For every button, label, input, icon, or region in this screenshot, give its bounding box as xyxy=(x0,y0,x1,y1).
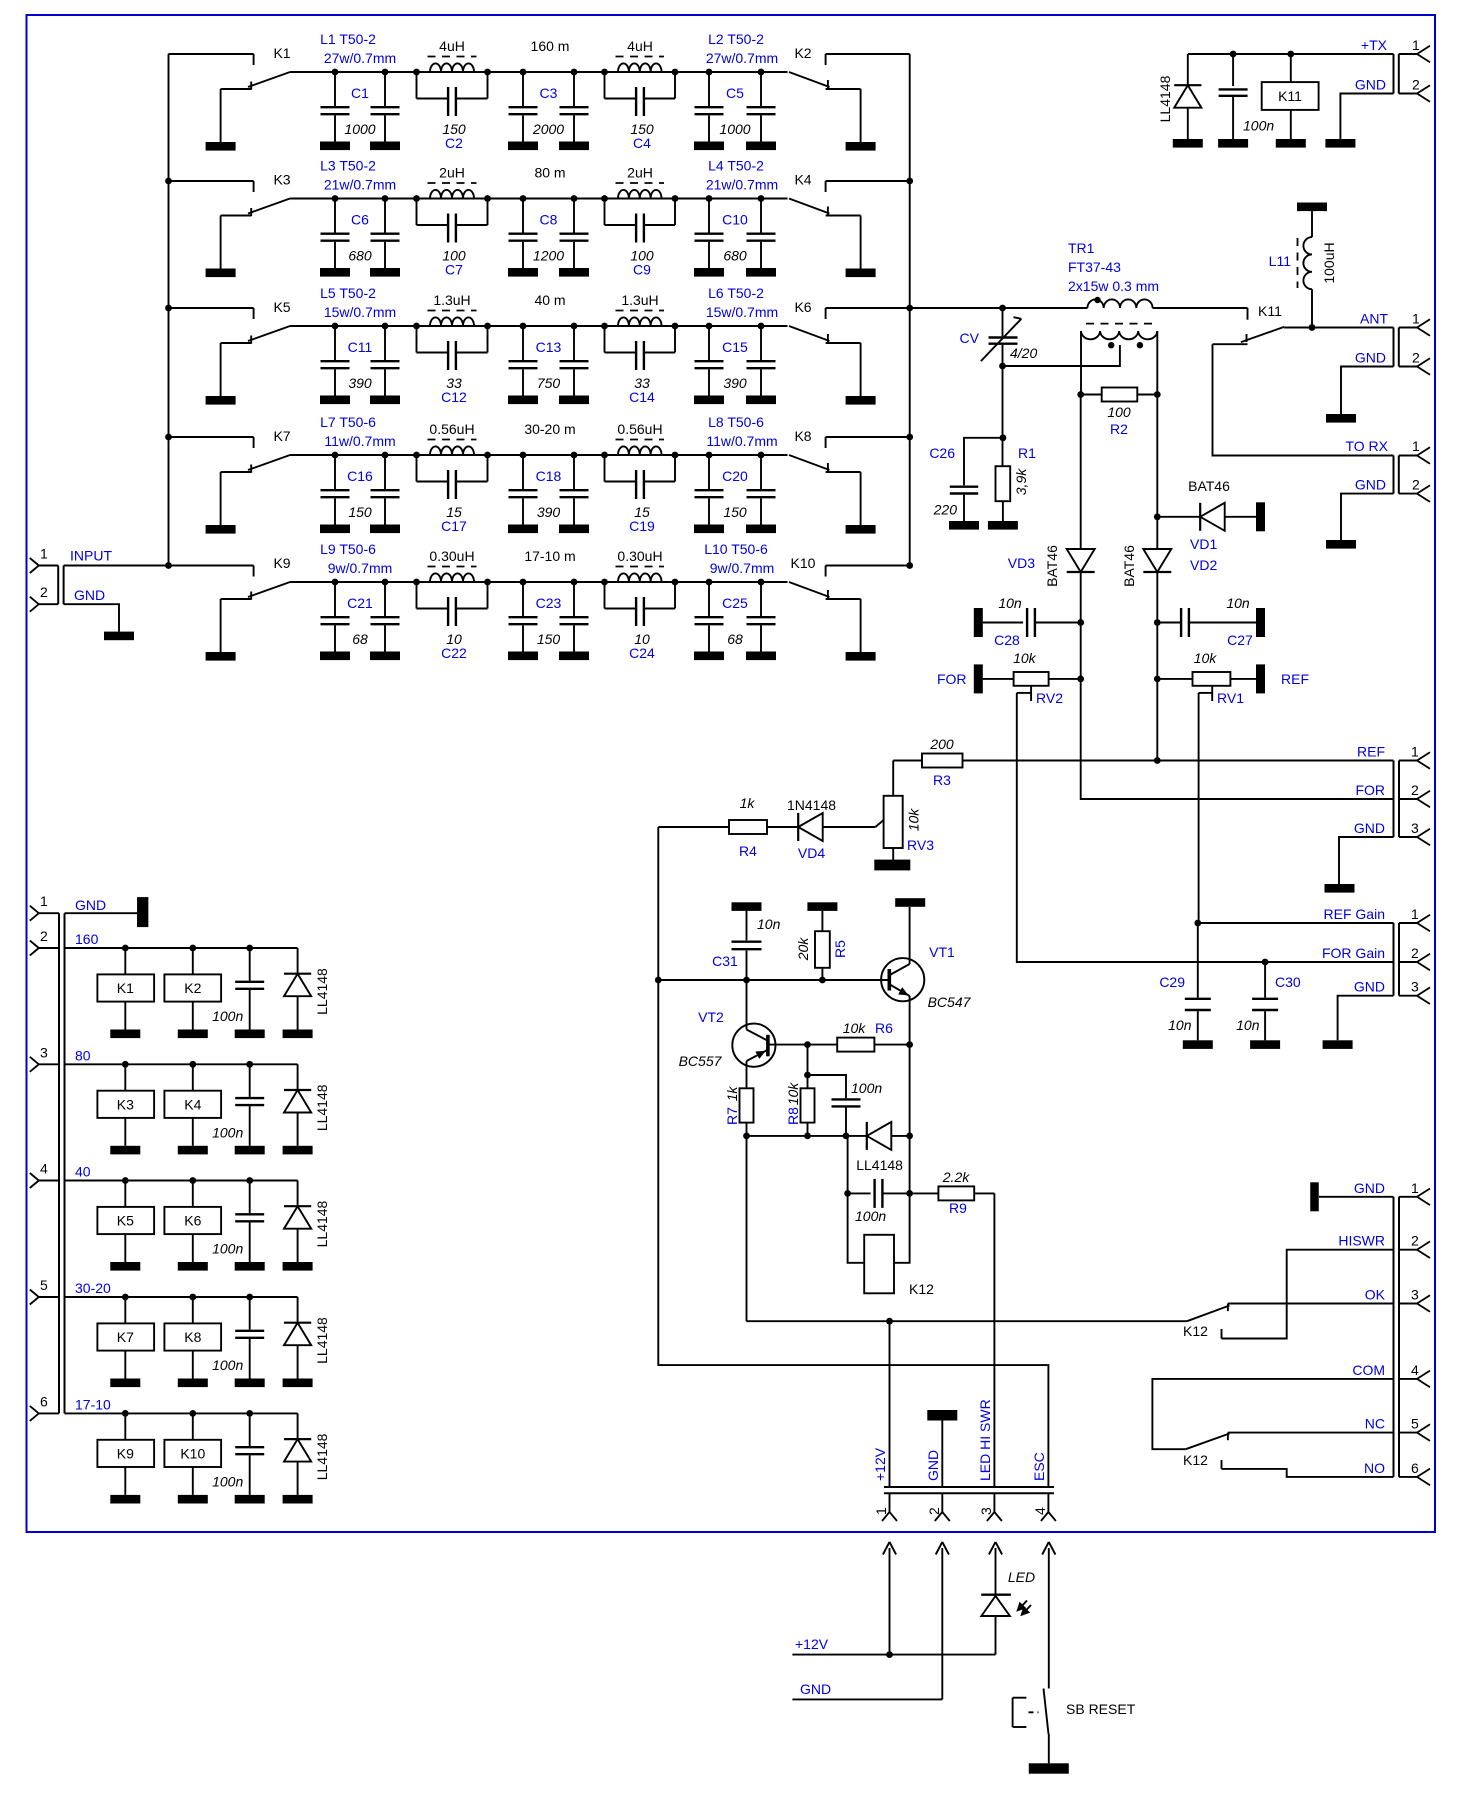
svg-text:100n: 100n xyxy=(212,1008,243,1024)
svg-text:1k: 1k xyxy=(724,1086,740,1102)
svg-text:1k: 1k xyxy=(740,795,756,811)
svg-text:1: 1 xyxy=(40,546,48,562)
svg-text:LED: LED xyxy=(1008,1569,1035,1585)
capacitor C13 pair xyxy=(508,323,589,405)
svg-text:K9: K9 xyxy=(117,1445,134,1461)
svg-text:R8: R8 xyxy=(785,1107,801,1125)
connector X9 REF Gain/FOR Gain/GND xyxy=(1322,906,1430,1004)
svg-text:68: 68 xyxy=(727,631,743,647)
capacitor C29 10n xyxy=(1159,923,1212,1049)
svg-text:2: 2 xyxy=(1411,1233,1419,1249)
connector X5 power xyxy=(872,1399,1056,1521)
svg-text:L1 T50-2: L1 T50-2 xyxy=(320,31,376,47)
svg-text:27w/0.7mm: 27w/0.7mm xyxy=(706,50,778,66)
svg-text:VD1: VD1 xyxy=(1190,536,1217,552)
capacitor C10 pair xyxy=(694,195,776,277)
svg-text:5: 5 xyxy=(40,1277,48,1293)
connector pin 4 (40) xyxy=(30,1161,91,1189)
svg-text:VT1: VT1 xyxy=(929,944,955,960)
svg-text:27w/0.7mm: 27w/0.7mm xyxy=(324,50,396,66)
capacitor C16 pair xyxy=(320,452,400,533)
svg-text:4: 4 xyxy=(1032,1507,1048,1515)
svg-text:0.56uH: 0.56uH xyxy=(617,421,662,437)
svg-text:100n: 100n xyxy=(212,1124,243,1140)
wire row 80 m main line xyxy=(290,198,788,200)
svg-text:C4: C4 xyxy=(633,135,651,151)
svg-text:K7: K7 xyxy=(273,428,290,444)
svg-text:L6 T50-2: L6 T50-2 xyxy=(708,285,764,301)
svg-text:160: 160 xyxy=(75,931,99,947)
svg-text:100uH: 100uH xyxy=(1321,242,1337,283)
svg-text:LL4148: LL4148 xyxy=(1157,75,1173,122)
diode LL4148 (17-10) xyxy=(283,1413,331,1503)
capacitor 100n (80) xyxy=(212,1064,265,1154)
svg-text:R4: R4 xyxy=(739,843,757,859)
svg-text:2: 2 xyxy=(926,1507,942,1515)
svg-text:100n: 100n xyxy=(851,1080,882,1096)
svg-text:CV: CV xyxy=(960,330,980,346)
svg-text:40 m: 40 m xyxy=(534,292,565,308)
svg-text:2: 2 xyxy=(1412,477,1420,493)
svg-text:C6: C6 xyxy=(351,212,369,228)
svg-text:2: 2 xyxy=(1412,77,1420,93)
relay K2 (right) xyxy=(789,45,910,151)
svg-text:80 m: 80 m xyxy=(534,165,565,181)
svg-text:LL4148: LL4148 xyxy=(314,1200,330,1247)
svg-text:BC557: BC557 xyxy=(679,1053,723,1069)
transistor VT1 BC547 xyxy=(881,898,972,1044)
svg-text:17-10: 17-10 xyxy=(75,1396,111,1412)
svg-text:ESC: ESC xyxy=(1031,1452,1047,1481)
relay coil K12 xyxy=(848,1136,935,1297)
wire NC net xyxy=(1228,1433,1394,1441)
svg-text:C16: C16 xyxy=(347,468,373,484)
svg-text:2000: 2000 xyxy=(532,121,564,137)
wire row 30-20 m main line xyxy=(290,454,788,456)
svg-text:2: 2 xyxy=(40,928,48,944)
svg-text:1: 1 xyxy=(1411,1180,1419,1196)
svg-text:10n: 10n xyxy=(1168,1017,1192,1033)
svg-text:21w/0.7mm: 21w/0.7mm xyxy=(706,177,778,193)
relay contact K12 (upper) xyxy=(1183,1306,1230,1340)
inductor L6 1.3uH xyxy=(601,285,778,329)
relay K3 (left) xyxy=(169,172,291,278)
svg-text:9w/0.7mm: 9w/0.7mm xyxy=(710,560,775,576)
svg-text:C18: C18 xyxy=(536,468,562,484)
wire VT1 base line xyxy=(655,977,888,984)
wire band 40 rail xyxy=(65,1177,298,1184)
svg-text:100n: 100n xyxy=(212,1357,243,1373)
relay contact K11 xyxy=(1153,303,1285,344)
connector pin 3 (80) xyxy=(30,1044,91,1072)
inductor L5 1.3uH xyxy=(320,285,491,329)
capacitor C14 (parallel with L6) xyxy=(605,326,676,405)
diode VD6 LL4148 xyxy=(856,1122,913,1173)
svg-text:R1: R1 xyxy=(1018,445,1036,461)
svg-text:L5 T50-2: L5 T50-2 xyxy=(320,285,376,301)
resistor R8 10k xyxy=(785,1045,815,1136)
svg-text:REF: REF xyxy=(1281,671,1309,687)
svg-text:680: 680 xyxy=(723,248,747,264)
svg-text:FOR Gain: FOR Gain xyxy=(1322,945,1385,961)
left bus wire xyxy=(165,54,172,569)
connector X6 band select xyxy=(30,893,106,1413)
svg-text:C27: C27 xyxy=(1227,632,1253,648)
connector X2 +TX xyxy=(1355,37,1430,102)
capacitor C33 100n (R8) xyxy=(808,1075,883,1136)
wire R9 to LED pin xyxy=(993,1193,995,1487)
svg-text:TO RX: TO RX xyxy=(1345,438,1388,454)
svg-text:10n: 10n xyxy=(998,595,1022,611)
diode VD5 LL4148 (+TX) xyxy=(1157,54,1203,148)
relay coil K7 xyxy=(97,1297,154,1387)
resistor R7 1k xyxy=(724,1086,754,1136)
capacitor C9 (parallel with L4) xyxy=(605,199,676,278)
wire VD3 branch xyxy=(1080,395,1082,550)
svg-text:K12: K12 xyxy=(1183,1452,1208,1468)
svg-text:RV2: RV2 xyxy=(1036,690,1063,706)
svg-text:C23: C23 xyxy=(536,595,562,611)
svg-text:10k: 10k xyxy=(1194,650,1218,666)
capacitor C23 pair xyxy=(508,579,589,661)
capacitor 100n (160) xyxy=(212,948,265,1038)
svg-text:1: 1 xyxy=(40,893,48,909)
svg-text:K11: K11 xyxy=(1278,88,1302,104)
wire CV node down xyxy=(1000,366,1007,466)
relay coil K1 xyxy=(97,948,154,1038)
svg-text:100n: 100n xyxy=(855,1208,886,1224)
svg-text:INPUT: INPUT xyxy=(70,548,112,564)
wire OK net xyxy=(1228,1304,1394,1312)
arrow +12V pin xyxy=(883,1542,896,1655)
svg-text:C29: C29 xyxy=(1159,974,1185,990)
wire +TX rail xyxy=(1188,51,1394,58)
svg-text:3: 3 xyxy=(40,1044,48,1060)
svg-text:17-10 m: 17-10 m xyxy=(524,548,575,564)
svg-text:15w/0.7mm: 15w/0.7mm xyxy=(706,304,778,320)
svg-text:10n: 10n xyxy=(1236,1017,1260,1033)
connector X8 REF/FOR/GND xyxy=(1354,744,1430,846)
svg-text:1: 1 xyxy=(1412,438,1420,454)
svg-text:100n: 100n xyxy=(1243,118,1274,134)
LED indicator xyxy=(981,1569,1035,1655)
svg-text:K10: K10 xyxy=(180,1445,205,1461)
arrow GND pin xyxy=(936,1542,949,1699)
svg-text:K11: K11 xyxy=(1258,303,1282,319)
svg-text:BAT46: BAT46 xyxy=(1044,545,1060,587)
arrow ESC pin xyxy=(1042,1542,1055,1689)
svg-text:4: 4 xyxy=(1411,1362,1419,1378)
svg-text:VT2: VT2 xyxy=(698,1009,724,1025)
svg-text:FOR: FOR xyxy=(1355,782,1385,798)
capacitor C11 pair xyxy=(320,323,400,405)
arrow LED pin xyxy=(989,1542,1002,1595)
capacitor C2 (parallel with L1) xyxy=(417,72,488,151)
capacitor 100n (17-10) xyxy=(212,1413,265,1503)
svg-text:L2 T50-2: L2 T50-2 xyxy=(708,31,764,47)
svg-text:150: 150 xyxy=(723,504,747,520)
capacitor C25 pair xyxy=(694,579,776,661)
svg-text:20k: 20k xyxy=(795,937,811,962)
diode LL4148 (80) xyxy=(283,1064,331,1154)
svg-text:10k: 10k xyxy=(906,808,922,832)
svg-text:R5: R5 xyxy=(832,940,848,958)
svg-text:HISWR: HISWR xyxy=(1338,1233,1385,1249)
svg-text:9w/0.7mm: 9w/0.7mm xyxy=(328,560,393,576)
svg-text:C25: C25 xyxy=(722,595,748,611)
svg-text:10n: 10n xyxy=(1226,595,1250,611)
svg-text:3: 3 xyxy=(1411,1287,1419,1303)
svg-text:LL4148: LL4148 xyxy=(856,1157,903,1173)
svg-text:68: 68 xyxy=(352,631,368,647)
resistor R1 3.9k xyxy=(988,445,1036,530)
diode VD1 BAT46 xyxy=(1157,478,1265,573)
capacitor C26 220 xyxy=(929,438,1003,530)
svg-text:10k: 10k xyxy=(843,1020,867,1036)
svg-text:3: 3 xyxy=(1411,979,1419,995)
svg-text:C24: C24 xyxy=(629,645,655,661)
svg-text:3,9k: 3,9k xyxy=(1013,468,1029,495)
connector X4 TO RX xyxy=(1345,438,1430,502)
svg-text:C11: C11 xyxy=(348,339,373,355)
svg-text:2: 2 xyxy=(1411,945,1419,961)
svg-text:NO: NO xyxy=(1364,1460,1385,1476)
wire K11 to ANT xyxy=(1284,324,1393,331)
svg-text:R9: R9 xyxy=(949,1200,967,1216)
svg-text:390: 390 xyxy=(348,375,372,391)
svg-text:2uH: 2uH xyxy=(627,165,653,181)
svg-text:K6: K6 xyxy=(184,1213,201,1229)
relay K7 (left) xyxy=(169,428,291,534)
svg-text:1: 1 xyxy=(1412,311,1420,327)
svg-text:RV1: RV1 xyxy=(1217,690,1244,706)
svg-text:LL4148: LL4148 xyxy=(314,968,330,1015)
svg-text:2uH: 2uH xyxy=(439,165,465,181)
svg-text:COM: COM xyxy=(1352,1362,1385,1378)
svg-text:SB RESET: SB RESET xyxy=(1066,1701,1136,1717)
resistor R9 2.2k xyxy=(910,1169,995,1216)
svg-text:0.56uH: 0.56uH xyxy=(429,421,474,437)
diode VD3 BAT46 xyxy=(1008,545,1095,623)
svg-text:100: 100 xyxy=(1107,404,1131,420)
capacitor C5 pair xyxy=(694,69,776,151)
capacitor C4 (parallel with L2) xyxy=(605,72,676,151)
svg-text:C10: C10 xyxy=(722,212,748,228)
capacitor C30 10n xyxy=(1236,962,1301,1049)
wire GND external xyxy=(792,1681,942,1699)
svg-text:1: 1 xyxy=(1411,744,1419,760)
wire band 30-20 rail xyxy=(65,1294,298,1301)
svg-text:1000: 1000 xyxy=(719,121,750,137)
svg-text:K3: K3 xyxy=(117,1096,134,1112)
ground (X8 GND pin) xyxy=(1325,837,1394,893)
wire K11 to TO RX xyxy=(1213,344,1394,455)
diode VD2 BAT46 xyxy=(1121,545,1172,623)
svg-text:REF Gain: REF Gain xyxy=(1324,906,1385,922)
svg-text:GND: GND xyxy=(74,587,105,603)
svg-text:C17: C17 xyxy=(441,518,467,534)
svg-text:K1: K1 xyxy=(273,45,290,61)
svg-text:10n: 10n xyxy=(757,916,781,932)
relay coil K5 xyxy=(97,1181,154,1271)
capacitor 100n (40) xyxy=(212,1181,265,1271)
capacitor C15 pair xyxy=(694,323,776,405)
wire RV1 wiper to REF Gain xyxy=(1194,693,1393,926)
svg-text:C12: C12 xyxy=(441,389,467,405)
connector pin 2 (160) xyxy=(30,928,99,956)
resistor R2 100 xyxy=(1077,388,1160,438)
svg-text:FOR: FOR xyxy=(937,671,967,687)
svg-text:C21: C21 xyxy=(347,595,373,611)
capacitor C12 (parallel with L5) xyxy=(417,326,488,405)
capacitor C18 pair xyxy=(508,452,589,533)
resistor R3 200 xyxy=(893,736,962,788)
inductor L3 2uH xyxy=(320,158,491,202)
svg-text:2: 2 xyxy=(1412,350,1420,366)
capacitor C32 100n (+TX) xyxy=(1218,54,1274,148)
capacitor C28 10n xyxy=(974,595,1084,648)
inductor L9 0.30uH xyxy=(320,541,491,585)
ground (ANT GND pin) xyxy=(1326,367,1394,423)
diode LL4148 (30-20) xyxy=(283,1297,331,1387)
svg-text:L10 T50-6: L10 T50-6 xyxy=(704,541,768,557)
relay coil K11 xyxy=(1262,54,1319,148)
relay contact K12 (lower) xyxy=(1183,1434,1230,1469)
svg-text:4: 4 xyxy=(40,1161,48,1177)
svg-text:390: 390 xyxy=(537,504,561,520)
svg-text:C31: C31 xyxy=(712,953,738,969)
svg-text:K3: K3 xyxy=(273,172,290,188)
potentiometer RV3 10k xyxy=(874,761,934,871)
svg-text:L8 T50-6: L8 T50-6 xyxy=(708,414,764,430)
svg-text:FT37-43: FT37-43 xyxy=(1068,259,1121,275)
ground (+TX GND pin) xyxy=(1325,94,1393,148)
svg-text:C13: C13 xyxy=(536,339,562,355)
svg-text:750: 750 xyxy=(537,375,561,391)
LED arrows xyxy=(1016,1601,1031,1617)
svg-text:L11: L11 xyxy=(1269,253,1292,269)
svg-text:C5: C5 xyxy=(726,85,744,101)
wire TX line to TR1 xyxy=(910,305,1088,312)
wire RV2 wiper to FOR Gain xyxy=(1017,693,1394,965)
wire CV to TR1 center tap xyxy=(999,345,1120,369)
svg-text:6: 6 xyxy=(40,1393,48,1409)
svg-text:REF: REF xyxy=(1357,744,1385,760)
svg-text:BC547: BC547 xyxy=(928,994,972,1010)
svg-text:+TX: +TX xyxy=(1361,37,1388,53)
capacitor C19 (parallel with L8) xyxy=(605,455,676,534)
relay K4 (right) xyxy=(789,172,910,278)
svg-text:2: 2 xyxy=(40,584,48,600)
svg-text:LED HI SWR: LED HI SWR xyxy=(977,1399,993,1481)
svg-text:40: 40 xyxy=(75,1164,91,1180)
svg-text:LL4148: LL4148 xyxy=(314,1433,330,1480)
capacitor C8 pair xyxy=(508,195,589,277)
wire VD2 branch xyxy=(1154,395,1161,550)
resistor R6 10k xyxy=(804,1020,913,1052)
diode LL4148 (40) xyxy=(283,1181,331,1271)
terminal bar (status GND) xyxy=(1310,1182,1393,1211)
inductor L2 4uH xyxy=(601,31,778,75)
wire COM net xyxy=(1152,1379,1393,1449)
svg-text:K8: K8 xyxy=(794,428,811,444)
svg-text:+12V: +12V xyxy=(795,1636,829,1652)
relay K1 (left) xyxy=(169,45,291,151)
svg-text:L3 T50-2: L3 T50-2 xyxy=(320,158,376,174)
capacitor C6 pair xyxy=(320,195,400,277)
right bus wire xyxy=(906,54,913,569)
svg-text:VD2: VD2 xyxy=(1190,557,1217,573)
svg-text:LL4148: LL4148 xyxy=(314,1317,330,1364)
capacitor C1 pair xyxy=(320,69,400,151)
svg-text:10k: 10k xyxy=(785,1082,801,1106)
relay K8 (right) xyxy=(789,428,910,534)
svg-text:L4 T50-2: L4 T50-2 xyxy=(708,158,764,174)
connector X7 status xyxy=(1338,1180,1430,1485)
capacitor C3 pair xyxy=(508,69,589,151)
svg-text:GND: GND xyxy=(75,897,106,913)
capacitor C7 (parallel with L3) xyxy=(417,199,488,278)
svg-text:K2: K2 xyxy=(184,980,201,996)
svg-text:K4: K4 xyxy=(794,172,811,188)
connector X1 INPUT xyxy=(30,546,113,612)
relay coil K4 xyxy=(164,1064,221,1154)
svg-text:390: 390 xyxy=(723,375,747,391)
svg-text:GND: GND xyxy=(1355,77,1386,93)
relay coil K6 xyxy=(164,1181,221,1271)
diode LL4148 (160) xyxy=(283,948,331,1038)
svg-text:160 m: 160 m xyxy=(531,38,570,54)
wire R4 to C31 node xyxy=(657,827,659,980)
svg-text:100n: 100n xyxy=(212,1241,243,1257)
resistor R4 1k xyxy=(658,795,798,859)
potentiometer RV1 10k xyxy=(1154,650,1309,706)
svg-text:1: 1 xyxy=(1412,37,1420,53)
inductor L4 2uH xyxy=(601,158,778,202)
resistor R5 20k xyxy=(795,902,848,980)
svg-text:200: 200 xyxy=(929,736,954,752)
svg-text:1: 1 xyxy=(873,1507,889,1515)
wire row 40 m main line xyxy=(290,325,788,327)
svg-text:0.30uH: 0.30uH xyxy=(429,548,474,564)
wire emitter net xyxy=(743,1133,867,1140)
svg-text:TR1: TR1 xyxy=(1068,240,1095,256)
svg-text:4/20: 4/20 xyxy=(1010,345,1037,361)
svg-text:GND: GND xyxy=(800,1681,831,1697)
svg-text:RV3: RV3 xyxy=(907,837,934,853)
svg-text:K7: K7 xyxy=(117,1329,134,1345)
svg-text:K12: K12 xyxy=(909,1281,934,1297)
wire FOR net (VD3 to connector) xyxy=(1081,623,1394,800)
wire NO net xyxy=(1222,1460,1394,1477)
svg-text:BAT46: BAT46 xyxy=(1188,478,1230,494)
relay K6 (right) xyxy=(789,299,910,405)
svg-text:C22: C22 xyxy=(441,645,467,661)
relay coil K10 xyxy=(164,1413,221,1503)
transformer TR1 FT37-43 xyxy=(1068,240,1159,395)
svg-text:R3: R3 xyxy=(933,772,951,788)
capacitor C27 10n xyxy=(1154,595,1265,648)
svg-text:1000: 1000 xyxy=(344,121,375,137)
svg-text:OK: OK xyxy=(1365,1287,1386,1303)
svg-text:C1: C1 xyxy=(351,85,369,101)
svg-text:GND: GND xyxy=(1354,979,1385,995)
svg-text:R2: R2 xyxy=(1110,421,1128,437)
svg-text:1200: 1200 xyxy=(533,248,564,264)
connector X3 ANT xyxy=(1355,311,1430,375)
svg-text:K5: K5 xyxy=(273,299,290,315)
svg-text:4uH: 4uH xyxy=(627,38,653,54)
